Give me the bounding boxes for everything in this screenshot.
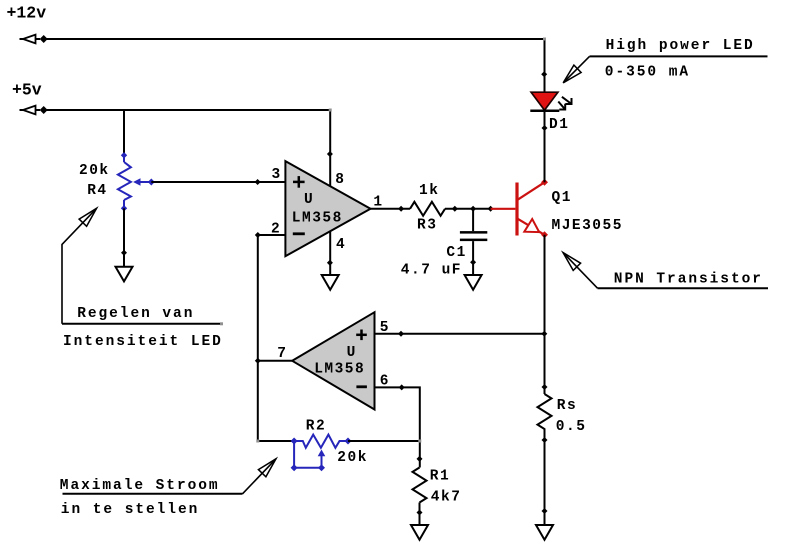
potentiometer R2	[291, 435, 352, 472]
wire op2 pin6	[375, 387, 420, 467]
node above R4 ground	[121, 250, 127, 256]
annotation underline (High power LED)	[590, 55, 768, 57]
op-amp U1b minus input mark	[356, 385, 367, 388]
svg-text:Maximale Stroom: Maximale Stroom	[60, 478, 220, 494]
ground under R1	[411, 525, 428, 540]
node on output wire	[398, 206, 404, 212]
power arrow +5v	[20, 106, 41, 115]
svg-text:1k: 1k	[419, 183, 439, 199]
svg-text:0-350 mA: 0-350 mA	[605, 65, 690, 81]
wire +5v drop to op1 pin8	[329, 110, 331, 187]
potentiometer R4	[118, 152, 155, 211]
svg-text:in te stellen: in te stellen	[61, 502, 199, 518]
node below Rs	[542, 437, 548, 443]
op-amp U1b LM358 (bottom)	[292, 312, 374, 409]
wire R3 to transistor base	[445, 208, 491, 210]
op-amp U1a LM358 (top)	[285, 161, 370, 256]
wire R2 right lead to R1 top	[348, 440, 420, 442]
wire Q1 emitter down to Rs	[544, 235, 546, 394]
wire op1 pin2 stub	[258, 234, 286, 236]
node +12v dot	[40, 35, 48, 43]
annotation underline (Regelen van)	[62, 323, 222, 325]
op-amp U1b plus input mark	[356, 330, 367, 341]
wire feedback vertical pin2 to R2	[257, 235, 259, 441]
svg-text:Regelen van: Regelen van	[77, 306, 194, 322]
wire +12v rail	[44, 38, 545, 40]
svg-text:R3: R3	[417, 218, 437, 234]
corner nub R1 top	[418, 440, 421, 443]
ground under op1 pin4	[322, 275, 339, 290]
corner nub +12v	[543, 38, 546, 41]
svg-text:Q1: Q1	[552, 190, 572, 206]
op-amp U1a minus input mark	[293, 232, 305, 235]
node R3 right	[452, 206, 458, 212]
annotation underline (NPN Transistor)	[598, 287, 769, 289]
corner nub +5v	[329, 109, 332, 112]
ground under C1	[465, 275, 482, 290]
wire op2 pin5 to emitter line	[375, 333, 545, 335]
svg-text:4.7 uF: 4.7 uF	[401, 262, 462, 278]
svg-text:Rs: Rs	[557, 398, 577, 414]
wire +12v drop to LED anode	[544, 39, 546, 93]
wire R4 bottom to ground	[123, 208, 125, 266]
LED light arrow 2	[558, 102, 565, 110]
op-amp U1a plus input mark	[293, 176, 305, 188]
node pin4 bottom	[327, 260, 333, 266]
wire C1 bottom to ground	[472, 241, 474, 275]
wire op2 pin7 output	[258, 360, 292, 362]
node above R1 ground	[417, 510, 423, 516]
svg-text:U: U	[304, 192, 314, 208]
annotation underline (Maximale Stroom)	[63, 493, 243, 495]
node C1 tap	[470, 206, 476, 212]
resistor Rs	[538, 394, 552, 432]
svg-text:7: 7	[277, 346, 287, 362]
ground under Rs	[536, 525, 553, 540]
svg-text:20k: 20k	[79, 163, 110, 179]
svg-text:4: 4	[336, 237, 346, 253]
wire C1 top	[472, 209, 474, 231]
wire op1 pin4 to ground	[329, 231, 331, 275]
capacitor C1	[460, 231, 487, 241]
svg-text:U: U	[347, 345, 357, 361]
node on pin3 wire	[255, 179, 261, 185]
svg-text:R4: R4	[87, 183, 107, 199]
wire +5v tap down to R4	[123, 110, 125, 156]
node pin2 junction	[255, 232, 261, 238]
svg-text:8: 8	[335, 172, 345, 188]
wire LED cathode to Q1 collector	[544, 111, 546, 183]
LED light arrow 1	[562, 97, 572, 104]
wire op1 output to R3	[371, 208, 411, 210]
svg-text:+12v: +12v	[7, 4, 47, 23]
svg-text:C1: C1	[446, 245, 466, 261]
svg-text:NPN Transistor: NPN Transistor	[614, 271, 763, 287]
svg-text:D1: D1	[549, 117, 569, 133]
annotation arrow (Regelen van)	[62, 208, 97, 323]
transistor Q1 MJE3055	[491, 179, 548, 239]
svg-text:20k: 20k	[337, 450, 368, 466]
svg-text:R1: R1	[430, 468, 450, 484]
node pin8 top	[327, 151, 333, 157]
corner nub underline Regelen	[220, 322, 223, 325]
node below LED	[542, 125, 548, 131]
wire R4 wiper to op1 pin3	[151, 181, 285, 183]
node Rs top	[542, 384, 548, 390]
wire +5v rail	[44, 109, 331, 111]
svg-text:+5v: +5v	[12, 81, 42, 100]
node on pin5 wire	[398, 331, 404, 337]
wire R2 left lead	[258, 440, 294, 442]
wire Rs bottom to ground	[544, 432, 546, 525]
wire R1 bottom to ground	[419, 503, 421, 526]
svg-text:High power LED: High power LED	[606, 38, 755, 54]
annotation arrow (High power LED)	[563, 56, 589, 82]
resistor R1	[413, 468, 427, 503]
node on +12v drop	[541, 71, 547, 77]
annotation arrow (NPN Transistor)	[563, 253, 598, 289]
svg-text:MJE3055: MJE3055	[552, 218, 623, 234]
node above Rs ground	[542, 508, 548, 514]
node on pin6 wire	[399, 384, 405, 390]
node base junction	[488, 206, 494, 212]
node R1 top	[417, 456, 423, 462]
svg-text:3: 3	[272, 167, 282, 183]
node pin7 junction	[255, 358, 261, 364]
resistor R3	[410, 202, 445, 216]
node pin5 junction on emitter line	[541, 331, 547, 337]
svg-text:0.5: 0.5	[556, 419, 587, 435]
node above C1 ground	[470, 259, 476, 265]
LED D1	[530, 92, 559, 112]
svg-text:Intensiteit LED: Intensiteit LED	[63, 334, 223, 350]
annotation arrow (Maximale Stroom)	[243, 459, 277, 494]
svg-text:LM358: LM358	[292, 210, 343, 226]
corner nub R2 left	[256, 440, 259, 443]
svg-text:LM358: LM358	[314, 362, 365, 378]
svg-text:R2: R2	[306, 419, 326, 435]
ground under R4	[116, 267, 133, 282]
node +5v dot	[40, 106, 48, 114]
svg-text:4k7: 4k7	[431, 489, 462, 505]
power arrow +12v	[20, 35, 41, 44]
